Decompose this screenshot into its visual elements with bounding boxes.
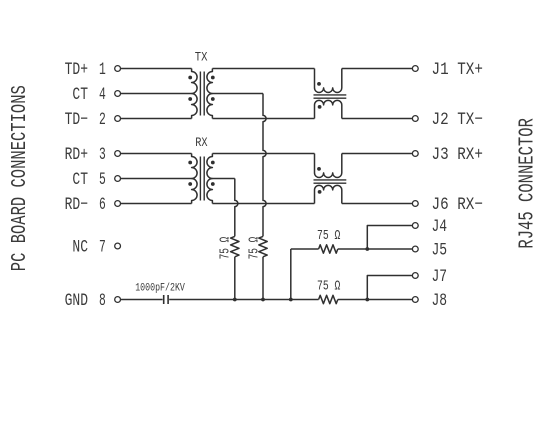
wire choke L2 top to J3 xyxy=(342,153,413,155)
junction V1/ground rail xyxy=(261,298,265,302)
choke L1 top dot xyxy=(317,82,321,86)
choke L1 bottom coil xyxy=(315,100,342,118)
transformer T2 secondary dot bottom xyxy=(211,182,215,186)
svg-text:J8: J8 xyxy=(432,291,448,311)
svg-text:CT: CT xyxy=(72,85,88,105)
wire branch to J7 xyxy=(367,276,412,300)
terminal J2 xyxy=(412,116,418,122)
choke L2 top dot xyxy=(317,167,321,171)
vertical net V2 from T2 tap with crossover hop xyxy=(235,179,238,237)
choke L1 core xyxy=(314,95,347,98)
svg-text:TX: TX xyxy=(195,50,208,65)
wire pin5 to T2 primary center tap xyxy=(121,178,192,180)
pin 1 terminal xyxy=(115,66,121,72)
wire pin2 to T1 primary bottom xyxy=(121,118,192,120)
svg-text:GND: GND xyxy=(65,291,88,311)
choke L2 top coil xyxy=(315,154,342,178)
wire choke L2 bottom to J6 xyxy=(342,203,413,205)
wire R3 to J5 xyxy=(338,248,413,250)
pin 7 label NC xyxy=(72,238,105,258)
svg-text:J5: J5 xyxy=(432,241,448,261)
transformer T1 primary winding xyxy=(192,69,198,119)
pin 5 terminal xyxy=(115,176,121,182)
transformer T1 core xyxy=(200,72,204,116)
capacitor C1 xyxy=(164,295,168,304)
pin 6 terminal xyxy=(115,201,121,207)
wire J5 row from node A xyxy=(291,248,319,250)
svg-text:J4: J4 xyxy=(432,217,448,237)
svg-text:1: 1 xyxy=(99,60,106,80)
pin 5 label CT xyxy=(72,170,105,190)
transformer T1 primary dot top xyxy=(188,76,192,80)
wire branch to J4 xyxy=(367,226,412,250)
svg-text:6: 6 xyxy=(99,195,106,215)
transformer T1 secondary winding xyxy=(207,69,212,119)
svg-text:1000pF/2KV: 1000pF/2KV xyxy=(135,283,185,295)
wire R4 to J8 xyxy=(338,299,413,301)
choke L2 core xyxy=(314,180,347,183)
wire T2 secondary tap to node V2 xyxy=(212,178,234,180)
resistor R1 75 ohm vertical xyxy=(231,236,239,256)
wire pin4 to T1 primary center tap xyxy=(121,93,192,95)
svg-text:75 Ω: 75 Ω xyxy=(317,279,340,294)
wire T1 secondary bottom to choke L1 xyxy=(212,118,314,120)
junction V2/ground rail xyxy=(233,298,237,302)
resistor R2 75 ohm vertical xyxy=(259,236,267,256)
pin 7 terminal xyxy=(115,243,121,249)
vertical net V1 from T1 tap with crossover hops xyxy=(263,94,266,237)
svg-text:75 Ω: 75 Ω xyxy=(218,237,233,260)
pin 4 label CT xyxy=(72,85,105,105)
pin 8 label GND xyxy=(65,291,106,311)
resistor R4 75 ohm horizontal in ground rail xyxy=(319,295,338,303)
svg-text:RJ45 CONNECTOR: RJ45 CONNECTOR xyxy=(516,118,539,249)
terminal J7 xyxy=(412,273,418,279)
transformer T1 secondary dot top xyxy=(211,76,215,80)
choke L1 bottom dot xyxy=(318,105,322,109)
wire choke L1 top to J1 xyxy=(342,68,413,70)
choke L2 bottom dot xyxy=(318,190,322,194)
wire pin6 to T2 primary bottom xyxy=(121,203,192,205)
transformer T2 primary dot bottom xyxy=(188,182,192,186)
junction J7 branch xyxy=(365,298,369,302)
svg-text:RD−: RD− xyxy=(65,195,88,215)
svg-text:J1 TX+: J1 TX+ xyxy=(432,60,483,80)
terminal J5 xyxy=(412,246,418,252)
transformer T1 primary dot bottom xyxy=(188,97,192,101)
transformer T2 primary winding xyxy=(192,154,198,204)
pin 2 terminal xyxy=(115,116,121,122)
terminal J8 xyxy=(412,297,418,303)
svg-text:3: 3 xyxy=(99,145,106,165)
transformer T2 secondary winding xyxy=(207,154,212,204)
transformer T2 core xyxy=(200,157,204,201)
svg-text:5: 5 xyxy=(99,170,106,190)
svg-text:TD+: TD+ xyxy=(65,60,88,80)
wire pin1 to T1 primary top xyxy=(121,68,192,70)
svg-text:4: 4 xyxy=(99,85,106,105)
svg-text:PC BOARD CONNECTIONS: PC BOARD CONNECTIONS xyxy=(9,85,32,271)
pin 4 terminal xyxy=(115,91,121,97)
wire T1 secondary tap to node V1 xyxy=(212,93,263,95)
svg-text:RX: RX xyxy=(195,135,207,150)
svg-text:J6 RX−: J6 RX− xyxy=(432,195,483,215)
wire T2 secondary bottom to choke L2 xyxy=(212,203,314,205)
transformer T2 primary dot top xyxy=(188,161,192,165)
svg-text:8: 8 xyxy=(99,291,106,311)
wire T2 secondary top to choke L2 xyxy=(212,153,314,155)
svg-text:2: 2 xyxy=(99,110,106,130)
svg-text:NC: NC xyxy=(72,238,88,258)
terminal J1 xyxy=(412,66,418,72)
svg-text:TD−: TD− xyxy=(65,110,88,130)
pin 1 label TD+ xyxy=(65,60,106,80)
junction node A/ground rail xyxy=(289,298,293,302)
transformer T1 secondary dot bottom xyxy=(211,97,215,101)
pin 3 label RD+ xyxy=(65,145,106,165)
pin 6 label RD- xyxy=(65,195,106,215)
wire T1 secondary top to choke L1 xyxy=(212,68,314,70)
svg-text:J3 RX+: J3 RX+ xyxy=(432,145,483,165)
svg-text:75 Ω: 75 Ω xyxy=(248,237,263,260)
pin 3 terminal xyxy=(115,151,121,157)
svg-text:7: 7 xyxy=(99,238,106,258)
pin 8 terminal xyxy=(115,297,121,303)
junction J4 branch xyxy=(365,247,369,251)
wire C1 to ground rail xyxy=(169,299,318,301)
terminal J4 xyxy=(412,223,418,229)
svg-text:CT: CT xyxy=(72,170,88,190)
wire R2 to ground rail xyxy=(262,257,264,300)
svg-text:75 Ω: 75 Ω xyxy=(317,229,340,244)
wire pin8 to capacitor C1 xyxy=(121,299,163,301)
terminal J6 xyxy=(412,201,418,207)
pin 2 label TD- xyxy=(65,110,106,130)
transformer T2 secondary dot top xyxy=(211,161,215,165)
resistor R3 75 ohm horizontal xyxy=(319,245,338,253)
svg-text:J2 TX−: J2 TX− xyxy=(432,110,483,130)
choke L1 top coil xyxy=(315,69,342,93)
wire node A down to ground rail xyxy=(290,249,292,300)
wire R1 to ground rail xyxy=(234,257,236,300)
choke L2 bottom coil xyxy=(315,185,342,203)
wire choke L1 bottom to J2 xyxy=(342,118,413,120)
terminal J3 xyxy=(412,151,418,157)
svg-text:J7: J7 xyxy=(432,267,448,287)
svg-text:RD+: RD+ xyxy=(65,145,88,165)
wire pin3 to T2 primary top xyxy=(121,153,192,155)
